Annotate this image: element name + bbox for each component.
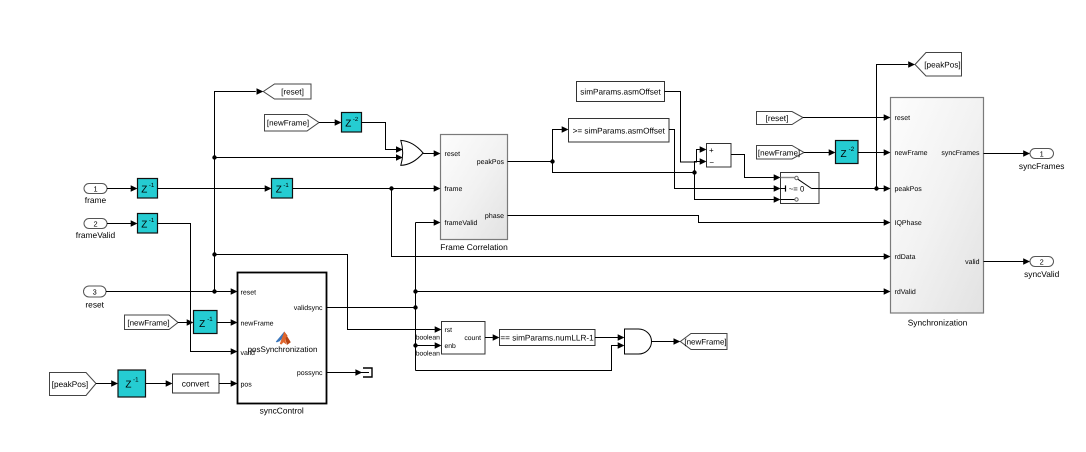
svg-text:convert: convert <box>182 379 210 389</box>
junction node validsync-rdValid <box>413 289 417 293</box>
svg-text:[peakPos]: [peakPos] <box>924 60 960 69</box>
output port 1 syncFrames <box>1019 149 1065 172</box>
arrowhead into D1 <box>131 185 138 192</box>
junction node validsync-enb <box>413 343 417 347</box>
svg-text:reset: reset <box>895 115 911 122</box>
wire F1 to D4 <box>319 122 338 124</box>
svg-text:phase: phase <box>485 212 504 220</box>
svg-text:Z: Z <box>276 185 282 196</box>
delay block D1 Z^-1 <box>138 179 158 199</box>
wire F5 to D7 <box>96 383 114 385</box>
wire D6 to syncControl newFrame <box>217 322 231 324</box>
svg-text:peakPos: peakPos <box>477 158 505 166</box>
svg-text:-1: -1 <box>149 217 155 224</box>
arrowhead into goto reset <box>257 88 264 95</box>
svg-text:syncFrames: syncFrames <box>1019 161 1065 171</box>
output port 2 syncValid <box>1024 257 1060 280</box>
arrowhead into goto peakPos <box>908 61 915 68</box>
svg-text:boolean: boolean <box>416 351 440 358</box>
MATLAB function block syncControl <box>231 273 327 416</box>
svg-text:Z: Z <box>125 380 131 391</box>
input port 3 reset <box>84 286 107 310</box>
svg-text:[newFrame]: [newFrame] <box>267 119 309 128</box>
junction node switch-gotoPeakPos <box>874 186 878 190</box>
wire Synchronization syncFrames to output 1 <box>984 153 1024 155</box>
from tag F2 [newFrame] <box>125 315 179 330</box>
wire switch out to Synchronization peakPos <box>819 188 884 190</box>
svg-text:frameValid: frameValid <box>445 219 478 227</box>
svg-text:count: count <box>464 335 481 342</box>
terminator <box>355 368 372 377</box>
wire counter count to compare EQ <box>485 337 493 339</box>
svg-text:reset: reset <box>445 151 461 158</box>
svg-text:~= 0: ~= 0 <box>789 184 805 193</box>
compare block == simParams.numLLR-1 <box>493 330 595 346</box>
delay block D2 Z^-1 <box>138 214 158 234</box>
wire Frame Correlation phase to IQPhase <box>508 216 885 223</box>
svg-text:1: 1 <box>93 185 97 194</box>
wire peakPos up to compare GE <box>553 130 562 162</box>
wire D1 to D3 <box>158 188 268 190</box>
svg-text:enb: enb <box>445 343 457 350</box>
svg-text:1: 1 <box>1040 150 1044 159</box>
wire trunk to counter rst <box>215 255 435 330</box>
svg-text:[reset]: [reset] <box>766 114 789 123</box>
sum block +- <box>700 144 731 168</box>
OR gate <box>396 140 423 165</box>
wire peakPos junction up to goto peakPos <box>877 65 908 189</box>
svg-text:-1: -1 <box>283 182 289 189</box>
junction node peakPos-compare <box>550 159 554 163</box>
svg-text:Z: Z <box>141 220 147 231</box>
wire OR gate to Frame Correlation reset <box>423 153 434 155</box>
svg-text:Z: Z <box>841 149 847 160</box>
svg-text:[newFrame]: [newFrame] <box>684 338 726 347</box>
input port 2 frameValid <box>76 219 116 241</box>
svg-text:validsync: validsync <box>294 304 323 312</box>
junction node frame-rdData <box>389 186 393 190</box>
wire sum to switch top input <box>731 155 774 178</box>
svg-text:frame: frame <box>445 185 463 193</box>
wire constant to sum plus <box>665 92 700 163</box>
goto tag G2 [newFrame] <box>680 334 727 350</box>
AND gate <box>618 329 652 354</box>
svg-text:3: 3 <box>93 288 97 297</box>
svg-text:frameValid: frameValid <box>76 230 116 240</box>
delay block D3 Z^-1 <box>272 179 293 199</box>
compare block >= simParams.asmOffset <box>562 119 669 143</box>
svg-text:[peakPos]: [peakPos] <box>52 380 88 389</box>
wire validsync net <box>327 223 885 371</box>
switch block ~= 0 <box>774 173 819 204</box>
wire convert to syncControl pos <box>219 383 231 385</box>
svg-text:boolean: boolean <box>416 334 440 341</box>
constant simParams.asmOffset <box>577 82 665 102</box>
svg-text:frame: frame <box>85 195 107 205</box>
arrowhead into D3 <box>265 185 272 192</box>
junction node validsync-in <box>413 305 417 309</box>
subsystem Frame Correlation <box>434 135 508 253</box>
junction node peakPos-sum <box>692 170 696 174</box>
wire D3 to Frame Correlation frame with branch to rdData <box>293 189 885 257</box>
svg-text:reset: reset <box>241 290 257 297</box>
svg-text:syncFrames: syncFrames <box>941 150 980 157</box>
wire syncControl possync to terminator <box>327 372 356 374</box>
junction node trunk-reset <box>212 289 216 293</box>
svg-text:== simParams.numLLR-1: == simParams.numLLR-1 <box>500 333 594 342</box>
wire F4 to D5 <box>804 152 831 154</box>
svg-text:2: 2 <box>1040 258 1044 267</box>
wire F3 to Synchronization reset <box>803 117 884 119</box>
delay block D4 Z^-2 <box>342 113 362 133</box>
counter block rst enb count <box>435 322 485 355</box>
svg-text:Z: Z <box>199 319 205 330</box>
from tag F3 [reset] <box>757 112 804 125</box>
arrowhead into D5 <box>829 149 836 156</box>
svg-text:IQPhase: IQPhase <box>895 219 922 227</box>
arrowhead into output 2 <box>1023 258 1030 265</box>
wire F2 to D6 <box>178 322 190 324</box>
wire compare GE to switch control <box>669 130 774 189</box>
wire trunk to OR gate lower input <box>215 157 397 159</box>
svg-text:[newFrame]: [newFrame] <box>758 148 800 157</box>
svg-text:-2: -2 <box>353 116 359 123</box>
svg-text:simParams.asmOffset: simParams.asmOffset <box>580 87 661 96</box>
arrowhead into goto newFrame <box>674 338 681 345</box>
delay block D5 Z^-2 <box>836 141 859 164</box>
svg-text:pos: pos <box>241 381 253 388</box>
wire peakPos down-right to sum minus and switch bottom <box>553 162 774 200</box>
MATLAB logo icon <box>276 332 291 346</box>
svg-text:valid: valid <box>965 258 980 266</box>
svg-text:Z: Z <box>141 185 147 196</box>
svg-text:syncControl: syncControl <box>260 406 304 416</box>
junction node trunk-OR <box>212 155 216 159</box>
wire oval1 to D1 <box>107 188 133 190</box>
svg-text:Synchronization: Synchronization <box>908 318 968 328</box>
svg-text:+: + <box>709 146 714 155</box>
svg-text:-2: -2 <box>849 146 855 153</box>
delay block D7 Z^-1 <box>118 370 146 397</box>
svg-text:peakPos: peakPos <box>895 185 923 193</box>
delay block D6 Z^-1 <box>194 311 218 334</box>
svg-text:Frame Correlation: Frame Correlation <box>440 242 508 252</box>
goto tag G1 [reset] <box>263 84 311 99</box>
wire Frame Correlation peakPos out <box>508 161 553 163</box>
from tag F1 [newFrame] <box>265 115 320 132</box>
wire oval2 to D2 <box>107 223 133 225</box>
wire D7 to convert <box>146 383 167 385</box>
arrowhead into D2 <box>131 220 138 227</box>
svg-text:possync: possync <box>297 370 323 377</box>
arrowhead into D7 <box>111 380 118 387</box>
wire AND gate to goto newFrame <box>652 341 674 343</box>
arrowhead into D4 <box>335 119 342 126</box>
input port 1 frame <box>84 184 107 206</box>
svg-text:[reset]: [reset] <box>281 88 304 97</box>
goto tag G3 [peakPos] <box>915 53 962 77</box>
wire oval3 to syncControl reset <box>106 291 231 293</box>
svg-text:>= simParams.asmOffset: >= simParams.asmOffset <box>573 126 666 135</box>
wire reset trunk vertical <box>215 92 256 292</box>
arrowhead into D6 <box>187 319 194 326</box>
subsystem Synchronization <box>884 98 984 328</box>
svg-text:-1: -1 <box>149 182 155 189</box>
svg-text:reset: reset <box>85 300 104 310</box>
from tag F5 [peakPos] <box>50 373 97 396</box>
wire D4 to OR gate upper input <box>362 123 397 150</box>
svg-text:2: 2 <box>93 220 97 229</box>
wire D5 to Synchronization newFrame <box>858 152 884 154</box>
svg-text:syncValid: syncValid <box>1024 269 1060 279</box>
convert block <box>166 374 219 393</box>
svg-text:[newFrame]: [newFrame] <box>127 318 169 327</box>
junction node trunk-counter <box>212 252 216 256</box>
svg-text:rdValid: rdValid <box>895 288 916 296</box>
wire D2 to syncControl valid <box>158 224 231 352</box>
from tag F4 [newFrame] <box>757 146 805 160</box>
svg-text:newFrame: newFrame <box>241 320 274 327</box>
svg-text:posSynchronization: posSynchronization <box>248 345 318 354</box>
svg-text:-1: -1 <box>133 377 139 384</box>
wire compare EQ to AND gate top <box>595 337 618 339</box>
svg-text:newFrame: newFrame <box>895 150 928 157</box>
svg-text:rst: rst <box>445 327 453 334</box>
wire Synchronization valid to output 2 <box>984 261 1024 263</box>
svg-text:Z: Z <box>345 119 351 130</box>
svg-text:−: − <box>709 158 714 167</box>
svg-text:-1: -1 <box>207 316 213 323</box>
svg-text:rdData: rdData <box>895 253 916 261</box>
arrowhead into output 1 <box>1023 150 1030 157</box>
